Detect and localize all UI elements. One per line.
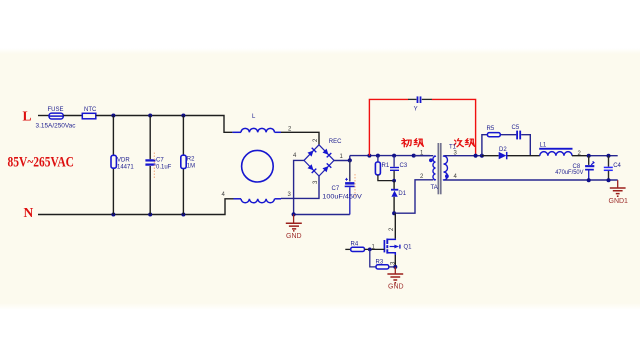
wire NTC to choke corner (L rail) xyxy=(96,116,233,133)
marker orange dashed line at C7 xyxy=(153,153,155,179)
GND rail (primary) xyxy=(294,214,350,216)
svg-text:VDR: VDR xyxy=(117,158,130,164)
wire rail to transformer pin1 xyxy=(414,155,434,157)
diode TL xyxy=(308,151,314,157)
red primary loop right vertical xyxy=(432,99,476,155)
svg-text:3.15A/250Vac: 3.15A/250Vac xyxy=(36,124,76,130)
svg-text:R4: R4 xyxy=(351,242,359,248)
svg-text:D2: D2 xyxy=(499,147,507,153)
output bottom rail (secondary return) xyxy=(445,179,618,181)
diode BL xyxy=(308,164,314,170)
capacitor C4 xyxy=(604,156,622,181)
ground GND (Q1) xyxy=(387,267,403,291)
junction dots on L rail xyxy=(111,114,115,118)
char ji (si radical + ji) xyxy=(465,139,474,147)
net label primary (CJK drawn) xyxy=(402,139,424,147)
wire L input to fuse xyxy=(38,115,49,117)
svg-text:C7: C7 xyxy=(332,186,340,192)
wire bridge pin4 down to GND rail xyxy=(294,160,304,214)
transistor Q1 xyxy=(384,213,412,267)
capacitor C7 bulk 100uF/450V xyxy=(322,160,362,214)
wire rail through D2 xyxy=(482,155,540,157)
svg-text:R2: R2 xyxy=(187,157,195,163)
choke circle xyxy=(242,150,274,182)
svg-text:NTC: NTC xyxy=(84,107,97,113)
ground GND (bridge) xyxy=(286,214,302,239)
secondary polarity dot xyxy=(445,174,449,178)
char ji (si radical + ji) xyxy=(414,139,423,147)
capacitor C7 0.1uF xyxy=(145,158,171,171)
wire L1 to output xyxy=(572,155,589,157)
junction dot source xyxy=(393,265,397,269)
inductor L1 xyxy=(539,143,572,156)
svg-text:Y: Y xyxy=(414,107,418,113)
junction dot R1/C3 bottom xyxy=(392,179,396,183)
bulk arrow xyxy=(390,246,395,248)
drain lead xyxy=(387,238,395,241)
secondary winding xyxy=(444,156,448,180)
svg-text:R1: R1 xyxy=(382,163,390,169)
red primary loop left vertical xyxy=(369,99,408,155)
ground GND1 xyxy=(609,180,629,205)
svg-text:R5: R5 xyxy=(487,126,495,132)
junction dot GND rail left xyxy=(292,212,296,216)
svg-text:L: L xyxy=(23,109,32,124)
resistor R4 xyxy=(345,242,384,252)
svg-text:1M: 1M xyxy=(187,164,195,170)
primary polarity dot xyxy=(429,158,433,162)
wire R2 vertical xyxy=(182,116,184,215)
wire fuse to NTC xyxy=(63,115,82,117)
svg-text:14471: 14471 xyxy=(117,165,134,171)
svg-text:C8: C8 xyxy=(573,164,581,170)
svg-text:L1: L1 xyxy=(540,143,547,149)
svg-text:C7: C7 xyxy=(156,158,164,164)
capacitor Y xyxy=(408,96,432,112)
svg-text:C4: C4 xyxy=(613,163,621,169)
core bars xyxy=(438,143,440,194)
svg-text:N: N xyxy=(24,205,34,220)
marker orange dashed line at C7 bulk xyxy=(354,174,356,198)
svg-text:0.1uF: 0.1uF xyxy=(156,165,172,171)
wire bridge pin1 to rail jog xyxy=(334,156,350,161)
choke bottom winding xyxy=(234,199,282,203)
svg-text:C5: C5 xyxy=(512,125,520,131)
gate bar xyxy=(383,240,385,252)
svg-text:100uF/450V: 100uF/450V xyxy=(322,195,362,201)
capacitor C3 xyxy=(390,156,408,181)
svg-text:TA: TA xyxy=(431,185,438,191)
junction dot at C7 bulk top xyxy=(348,158,352,162)
svg-text:GND: GND xyxy=(388,283,404,290)
svg-text:FUSE: FUSE xyxy=(48,107,64,113)
inductor L (common-mode choke top winding) xyxy=(232,114,281,133)
transformer TA xyxy=(429,143,457,194)
diode D1 zener xyxy=(391,181,407,214)
primary winding xyxy=(433,156,435,180)
capacitor C5 xyxy=(512,125,521,139)
resistor R2 1M xyxy=(181,155,195,169)
svg-text:GND1: GND1 xyxy=(609,198,629,205)
diode TR xyxy=(323,149,329,155)
svg-text:Q1: Q1 xyxy=(404,245,413,251)
junction dot snubber left xyxy=(480,154,484,158)
diode BR xyxy=(323,166,329,172)
wire secondary pin3 to snubber xyxy=(445,155,482,157)
diode D2 xyxy=(499,147,508,159)
junction dot gate xyxy=(368,248,372,252)
wire C7 (X2) vertical xyxy=(149,116,151,215)
junction dots on HV rail xyxy=(367,154,371,158)
wire choke pin3 to bridge bottom xyxy=(281,176,319,198)
capacitor C8 470uF/50V xyxy=(555,156,594,181)
resistor R1 xyxy=(375,156,394,181)
svg-text:C3: C3 xyxy=(400,163,408,169)
fuse FUSE xyxy=(36,107,76,130)
snubber loop verticals xyxy=(482,135,530,156)
junction dot D1 bottom xyxy=(392,211,396,215)
bridge rectifier REC xyxy=(304,139,342,176)
junction dot red loop right xyxy=(474,154,478,158)
varistor VDR 14471 xyxy=(111,155,134,170)
wire D1 junction to transformer pin2 xyxy=(394,180,433,213)
wire N rail xyxy=(38,199,234,215)
char chu (ne radical + dao) xyxy=(402,139,411,147)
wire choke pin2 to bridge top xyxy=(281,132,319,145)
resistor R3 xyxy=(370,249,396,269)
junction dots output rail xyxy=(587,154,591,158)
svg-text:85V~265VAC: 85V~265VAC xyxy=(8,155,75,171)
svg-text:GND: GND xyxy=(286,233,302,240)
svg-text:D1: D1 xyxy=(398,191,406,197)
junction dots on N rail xyxy=(111,213,115,217)
resistor R5 xyxy=(487,126,501,137)
junction dots bottom rail xyxy=(587,178,591,182)
channel dashes xyxy=(386,239,388,254)
svg-text:REC: REC xyxy=(329,139,342,145)
thermistor NTC xyxy=(82,107,97,119)
wire VDR vertical xyxy=(112,116,114,215)
svg-text:470uF/50V: 470uF/50V xyxy=(555,170,583,176)
source lead xyxy=(387,253,395,255)
net label secondary (CJK drawn) xyxy=(454,139,474,147)
char ci (bing radical + qian) xyxy=(454,139,463,147)
main HV rail xyxy=(350,155,430,157)
svg-text:R3: R3 xyxy=(376,260,384,266)
